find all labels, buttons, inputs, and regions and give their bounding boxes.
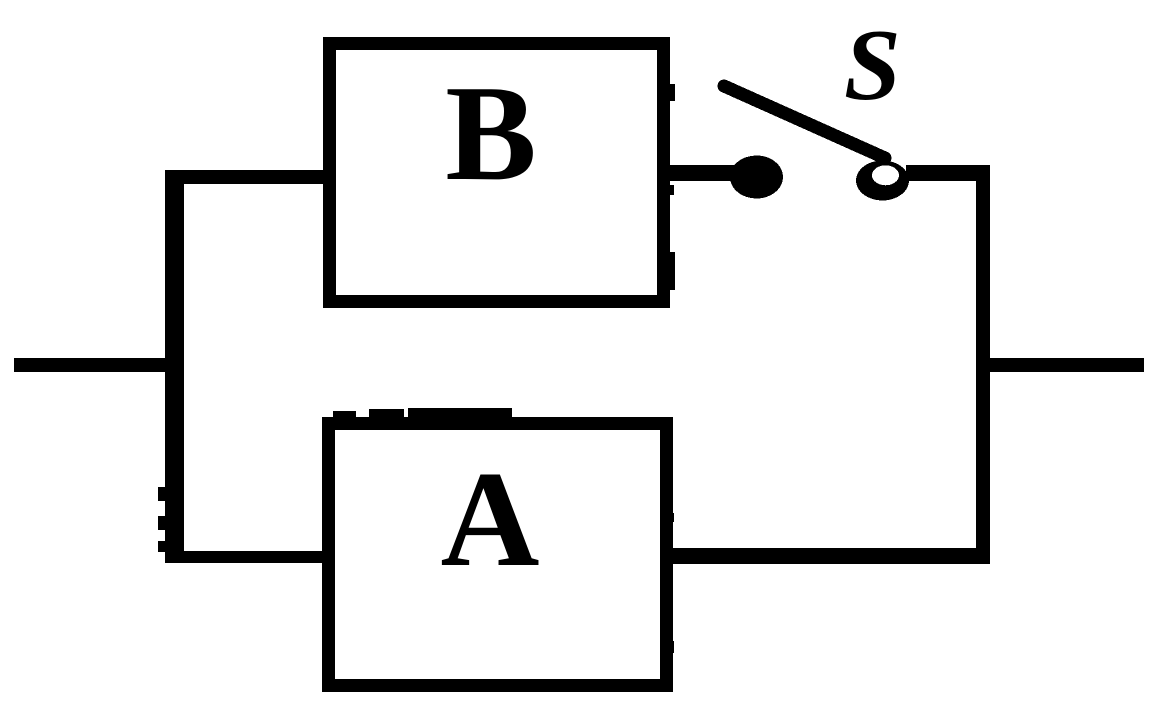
wire B to switch pole bbox=[660, 165, 735, 181]
wire right lead bbox=[976, 358, 1144, 372]
wire left lead bbox=[14, 358, 184, 372]
wire right rail bbox=[976, 165, 990, 563]
block B bbox=[330, 44, 664, 302]
wire top branch to B bbox=[165, 170, 336, 184]
switch S blade bbox=[724, 86, 885, 158]
wire artifact teeth on left rail bbox=[158, 487, 166, 552]
svg-text:S: S bbox=[844, 9, 901, 122]
wire A to right rail bbox=[660, 548, 990, 564]
wire artifact dashes above A top edge bbox=[333, 408, 512, 419]
wire left rail bbox=[165, 170, 184, 563]
wire bottom branch to A bbox=[165, 551, 335, 563]
node switch pole dot bbox=[730, 156, 783, 199]
wire artifact bumps on A right edge bbox=[667, 513, 674, 653]
wire artifact bumps on B right edge bbox=[667, 84, 675, 290]
wire switch to right rail bbox=[906, 165, 990, 181]
block A bbox=[329, 424, 667, 686]
svg-text:B: B bbox=[445, 57, 536, 209]
svg-text:A: A bbox=[441, 443, 540, 595]
switch S throw ring bbox=[856, 161, 909, 201]
